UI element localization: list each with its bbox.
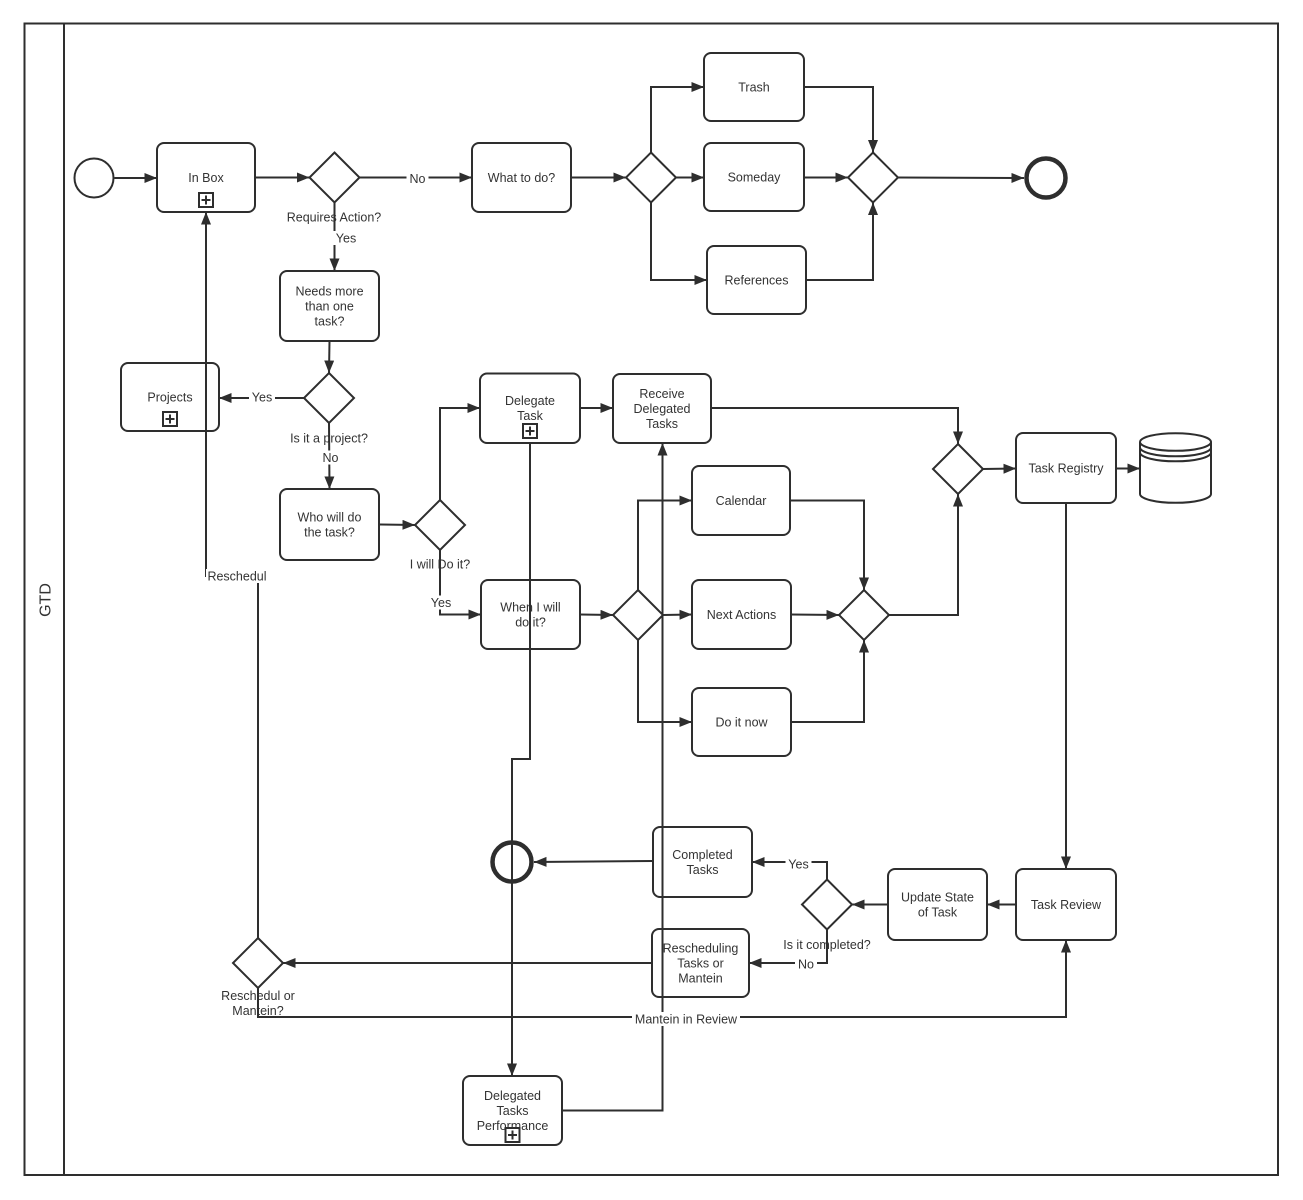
gateway G8 before registry — [933, 444, 983, 494]
wire Update State to G9 — [852, 904, 888, 906]
wire When I will to G6 — [580, 614, 613, 617]
svg-text:Task Registry: Task Registry — [1028, 461, 1104, 475]
start event — [75, 159, 114, 198]
label Yes (requires action) — [333, 231, 359, 245]
task Completed Tasks — [653, 827, 752, 897]
svg-text:than one: than one — [305, 299, 354, 313]
gateway G3 merge — [848, 153, 898, 203]
task Needs more than one task? — [280, 271, 379, 341]
wire Someday to G3 — [804, 177, 848, 179]
task Who will do the task? — [280, 489, 379, 560]
wire References to G3 — [806, 203, 873, 281]
wire Next Actions to G7 — [791, 614, 839, 617]
gateway G6 when-split — [613, 590, 663, 640]
svg-text:Yes: Yes — [788, 857, 808, 871]
label Yes (i will do it) — [428, 596, 454, 610]
svg-text:Update State: Update State — [901, 890, 974, 904]
label No (is it a project) — [320, 451, 342, 465]
svg-text:GTD: GTD — [38, 583, 55, 617]
wire G6 to Calendar — [638, 501, 692, 591]
gateway G2 split — [626, 153, 676, 203]
wire G10 Reschedul to In Box — [206, 212, 258, 938]
wire G6 to Next Actions — [663, 614, 692, 617]
wire Task Registry to Task Review — [1065, 503, 1067, 869]
wire G7 to G8 — [889, 494, 958, 615]
task What to do? — [472, 143, 571, 212]
wire Receive Delegated to G8 — [711, 408, 958, 444]
svg-text:Next Actions: Next Actions — [707, 608, 776, 622]
wire Delegate Task to Delegated Tasks Performance — [512, 443, 530, 1076]
svg-text:Trash: Trash — [738, 80, 770, 94]
label No (is it completed) — [795, 957, 817, 971]
wire G9 No to Rescheduling — [749, 930, 827, 964]
svg-text:No: No — [323, 451, 339, 465]
svg-text:Tasks or: Tasks or — [677, 956, 724, 970]
task Trash — [704, 53, 804, 121]
wire G9 Yes to Completed Tasks — [752, 862, 827, 880]
label Yes (is it completed) — [786, 857, 812, 871]
wire Task Review to Update State — [987, 904, 1016, 906]
wire Calendar to G7 — [790, 501, 864, 591]
svg-text:Tasks: Tasks — [687, 863, 719, 877]
gateway G5 i-will-do-it — [415, 500, 465, 550]
datastore database cylinder — [1140, 433, 1211, 503]
svg-text:Yes: Yes — [252, 390, 272, 404]
task In Box — [157, 143, 255, 212]
svg-text:Calendar: Calendar — [716, 494, 767, 508]
label Mantein in Review — [632, 1012, 740, 1026]
svg-text:No: No — [410, 172, 426, 186]
gateway G1 requires-action — [310, 153, 360, 203]
wire Trash to G3 — [804, 87, 873, 153]
gateway G9 is-it-completed — [802, 880, 852, 930]
wire G4 Yes to Projects — [219, 397, 304, 399]
wire Rescheduling to G10 — [283, 962, 652, 964]
svg-text:Someday: Someday — [728, 170, 782, 184]
wire G1 Yes to Needs more — [334, 203, 336, 272]
svg-text:Tasks: Tasks — [646, 417, 678, 431]
task Next Actions — [692, 580, 791, 649]
wire G2 to References — [651, 203, 707, 281]
task Task Registry — [1016, 433, 1116, 503]
lane divider — [63, 24, 65, 1176]
wire Performance to Receive Delegated — [562, 443, 663, 1111]
task Task Review — [1016, 869, 1116, 940]
task Delegated Tasks Performance — [463, 1076, 562, 1145]
svg-text:Projects: Projects — [147, 390, 192, 404]
gateway G10 reschedul-or-mantein — [233, 938, 283, 988]
svg-text:task?: task? — [315, 314, 345, 328]
gateway G7 merge mid — [839, 590, 889, 640]
wire Needs more to G4 — [328, 341, 331, 373]
end event top — [1027, 159, 1066, 198]
svg-text:Do it now: Do it now — [715, 715, 768, 729]
wire start to In Box — [115, 177, 158, 179]
svg-text:of Task: of Task — [918, 905, 958, 919]
wire G2 to Trash — [651, 87, 704, 153]
wire Completed Tasks to end event bottom — [534, 861, 653, 862]
wire In Box to G1 — [255, 177, 310, 179]
wire Do it now to G7 — [791, 640, 864, 722]
svg-text:Tasks: Tasks — [497, 1104, 529, 1118]
wire G10 Mantein to Task Review — [258, 940, 1066, 1017]
label Yes (is it a project) — [249, 390, 275, 404]
wire What to do? to G2 — [571, 177, 626, 179]
wire G5 to Delegate Task — [440, 408, 480, 500]
wire Who will do to G5 — [379, 524, 415, 527]
task When I will do it? — [481, 580, 580, 649]
svg-text:Reschedul: Reschedul — [207, 569, 266, 583]
svg-text:In Box: In Box — [188, 171, 224, 185]
end event bottom — [493, 843, 532, 882]
svg-text:Task: Task — [517, 409, 543, 423]
task Delegate Task — [480, 374, 580, 444]
svg-text:Mantein in Review: Mantein in Review — [635, 1012, 738, 1026]
svg-text:Completed: Completed — [672, 848, 732, 862]
wire G2 to Someday — [676, 177, 704, 179]
svg-text:References: References — [725, 273, 789, 287]
wire G4 No to Who will do — [328, 423, 331, 489]
svg-text:Delegated: Delegated — [484, 1089, 541, 1103]
svg-text:the task?: the task? — [304, 525, 355, 539]
task Rescheduling Tasks or Mantein — [652, 929, 749, 997]
svg-text:Delegate: Delegate — [505, 394, 555, 408]
task Do it now — [692, 688, 791, 756]
label Reschedul — [206, 569, 268, 583]
wire G5 Yes to When I will — [440, 550, 481, 615]
task Receive Delegated Tasks — [613, 374, 711, 443]
svg-text:Yes: Yes — [336, 231, 356, 245]
svg-text:Task Review: Task Review — [1031, 898, 1102, 912]
svg-text:Delegated: Delegated — [634, 402, 691, 416]
wire Task Registry to database — [1116, 468, 1140, 470]
gateway G4 is-it-a-project — [304, 373, 354, 423]
label No (requires action) — [407, 172, 429, 186]
task Projects — [121, 363, 219, 431]
svg-text:Receive: Receive — [639, 387, 684, 401]
task Calendar — [692, 466, 790, 535]
svg-text:Who will do: Who will do — [298, 510, 362, 524]
wire G1 No to What to do? — [360, 177, 473, 179]
svg-text:What to do?: What to do? — [488, 171, 555, 185]
svg-text:Yes: Yes — [431, 596, 451, 610]
svg-text:Needs more: Needs more — [295, 284, 363, 298]
wire G8 to Task Registry — [983, 468, 1016, 471]
svg-text:Mantein: Mantein — [678, 971, 723, 985]
task Someday — [704, 143, 804, 211]
svg-text:No: No — [798, 957, 814, 971]
wire G6 to Do it now — [638, 640, 692, 722]
wire G3 to end event top — [898, 177, 1024, 180]
task Update State of Task — [888, 869, 987, 940]
svg-text:Rescheduling: Rescheduling — [663, 941, 739, 955]
wire Delegate Task to Receive Delegated — [580, 407, 613, 409]
task References — [707, 246, 806, 314]
